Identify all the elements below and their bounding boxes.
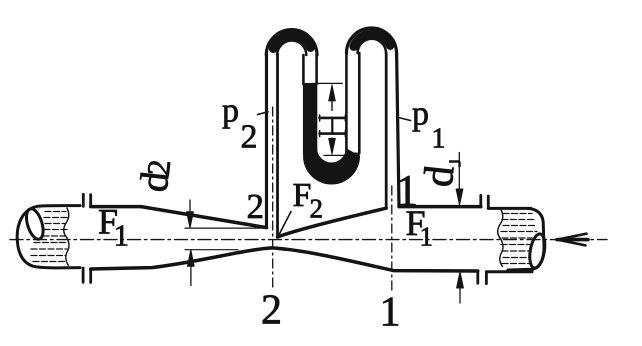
svg-text:1: 1 <box>420 222 434 252</box>
right arch heavy ink top <box>354 34 390 47</box>
H label (rotated) <box>320 115 346 137</box>
left manometer tube p2 left wall <box>265 54 268 228</box>
left pipe wavy break edge <box>64 208 69 266</box>
right pipe bore ellipse <box>527 233 547 270</box>
right bottom joint marks <box>476 271 479 283</box>
mercury left column <box>303 83 317 156</box>
svg-text:2: 2 <box>247 187 265 226</box>
U-tube right leg walls above mercury <box>345 53 348 153</box>
d1 dimension line lower <box>457 272 464 288</box>
H lower extension line <box>324 154 353 156</box>
svg-text:1: 1 <box>380 290 401 336</box>
venturi upper-right wall (cone) <box>278 208 387 237</box>
right arch outer <box>347 28 397 53</box>
right top joint marks <box>479 195 482 207</box>
right straight pipe top wall <box>399 205 481 209</box>
mercury U-bend <box>303 148 360 185</box>
svg-text:1: 1 <box>396 166 418 215</box>
right pipe wavy break edge <box>498 210 503 267</box>
right pipe end outline <box>508 208 544 270</box>
left bottom joint marks <box>82 268 85 282</box>
U-tube left leg walls above mercury <box>302 55 305 84</box>
venturi lower wall <box>91 248 478 271</box>
svg-text:2: 2 <box>241 119 258 156</box>
left manometer tube p2 right wall <box>276 54 279 237</box>
left arch heavy ink top <box>273 35 310 48</box>
svg-text:2: 2 <box>310 194 324 224</box>
right manometer tube p1 left wall <box>385 53 388 208</box>
left arch inner <box>277 40 306 55</box>
svg-text:1: 1 <box>432 124 446 155</box>
left pipe end outline <box>17 206 80 268</box>
H dim lower arrow <box>331 138 333 144</box>
right pipe top after joint <box>488 207 531 210</box>
right manometer tube p1 right wall <box>397 53 399 207</box>
right arch inner <box>358 39 386 53</box>
flow direction arrow <box>557 238 588 242</box>
right pipe hatching <box>501 214 537 264</box>
svg-text:2: 2 <box>261 287 282 333</box>
section line 1-1 <box>391 186 393 292</box>
section line 2-2 <box>272 107 274 291</box>
svg-text:p: p <box>412 95 429 132</box>
p2 leader <box>258 112 269 115</box>
d2 dimension line upper <box>189 200 191 214</box>
left top joint marks <box>82 194 85 206</box>
svg-text:p: p <box>222 93 239 130</box>
pipe axis centerline <box>10 239 607 241</box>
d1 dimension line upper <box>458 153 460 191</box>
left arch outer <box>266 30 317 55</box>
svg-text:1: 1 <box>114 218 130 253</box>
left pipe hatching <box>31 212 67 262</box>
F2 leader <box>278 212 291 238</box>
mercury right column <box>346 153 360 158</box>
H dim upper arrow <box>329 85 336 101</box>
d2 upper extension line <box>185 227 263 229</box>
H upper extension line <box>313 82 343 84</box>
d2 lower extension line <box>185 249 238 251</box>
right pipe bottom after joint <box>486 270 532 273</box>
left pipe bore ellipse <box>23 207 46 241</box>
p1 leader <box>399 118 411 121</box>
venturi upper-left wall <box>91 207 267 228</box>
d2 dimension line lower <box>187 250 194 266</box>
label d1 subscript bar <box>449 162 460 168</box>
